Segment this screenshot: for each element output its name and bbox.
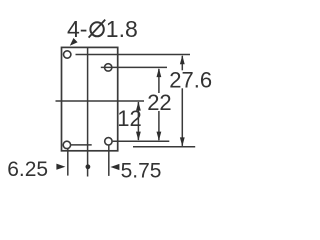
arrow down 12 <box>136 132 141 141</box>
horizontal center line <box>56 100 145 102</box>
hole bottom-right <box>105 138 112 145</box>
arrow up 12 <box>136 102 141 111</box>
dimension line 27.6 <box>181 56 183 71</box>
dimension line 12 <box>137 102 139 140</box>
vertical center line <box>87 47 89 176</box>
arrow left 5.75 <box>110 164 119 170</box>
svg-text:12: 12 <box>117 106 141 131</box>
bottom extension line for 27.6 <box>133 146 195 148</box>
svg-text:6.25: 6.25 <box>7 158 48 181</box>
dot on center line <box>86 164 91 169</box>
leader arrow for 4-dia1.8 <box>70 38 78 46</box>
bottom extension line right (below bottom-right hole) <box>108 146 110 176</box>
arrow down 27.6 <box>180 137 185 146</box>
extension line from top-left hole <box>76 54 191 56</box>
svg-text:22: 22 <box>147 90 171 115</box>
arrow down 22 <box>157 132 162 141</box>
component body outline <box>62 47 118 150</box>
leader line from bottom-left hole <box>71 144 92 146</box>
diameter symbol circle <box>90 22 103 36</box>
extension line from bottom-right hole <box>113 140 170 142</box>
hole bottom-left <box>63 141 70 148</box>
arrow up 27.6 <box>180 55 185 64</box>
arrow up 22 <box>157 68 162 77</box>
svg-text:1.8: 1.8 <box>106 16 138 42</box>
diameter symbol slash <box>89 20 106 38</box>
bottom extension line left (below bottom-left hole) <box>67 149 69 176</box>
hole top-left <box>63 51 70 58</box>
hole top-right <box>105 64 112 71</box>
svg-text:27.6: 27.6 <box>169 67 212 92</box>
svg-text:4-: 4- <box>67 16 87 42</box>
extension line from top-right hole <box>101 66 167 68</box>
dimension line 22 <box>158 69 160 93</box>
arrow right 6.25 <box>56 164 65 170</box>
svg-text:5.75: 5.75 <box>121 159 162 182</box>
